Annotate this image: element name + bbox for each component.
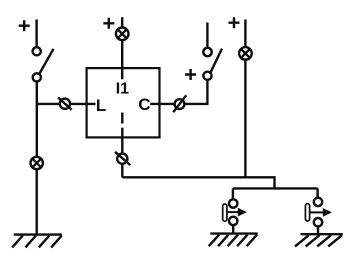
wire (drop to indicator P1): [232, 188, 234, 199]
switch S2 fixed contact circle: [203, 48, 211, 56]
lamp E1 (left pilot lamp): [31, 157, 43, 169]
wire (connector X3 down to node B rail): [121, 164, 123, 178]
connector X1 (circle with slash on L line): [58, 98, 72, 110]
svg-text:I1: I1: [116, 81, 129, 98]
wire (C line up to switch S2): [206, 80, 208, 105]
flasher unit I1 box: [87, 68, 160, 137]
node B (horizontal rail joining flasher output and lamp E3): [122, 176, 274, 178]
wire (stub above lamp E2): [121, 17, 123, 27]
connector X2 (circle with slash on C line): [173, 95, 186, 112]
power + (flasher unit feed): [103, 18, 114, 29]
wire (dashed internal link below I1): [121, 113, 123, 124]
node A (junction of left column and L line): [37, 103, 96, 105]
switch S1 moving contact circle: [33, 73, 41, 81]
power + (switch S2 feed): [185, 69, 196, 80]
ground (below P1): [209, 234, 258, 247]
svg-text:L: L: [96, 96, 106, 115]
wire (C terminal line out of box): [150, 103, 207, 105]
wire (left feed stub down to switch S1): [35, 19, 37, 47]
switch S1 blade: [40, 49, 54, 73]
wire (rail drop at right end): [273, 176, 275, 188]
wire (left column from S1 down to lamp E1): [36, 82, 38, 157]
power + (left battery feed): [19, 20, 30, 31]
wire (indicator P1 to ground): [232, 225, 234, 234]
power + (right lamp feed): [229, 17, 240, 28]
lamp E2 (top pilot lamp): [116, 28, 129, 41]
wire (stub above lamp E3): [244, 20, 246, 48]
ground (left): [12, 235, 62, 248]
svg-text:C: C: [138, 95, 150, 114]
lamp E3 (right pilot lamp): [239, 47, 252, 60]
indicator P1 (left directional lamp unit): [223, 199, 247, 225]
switch S2 moving contact circle: [203, 72, 211, 80]
ground (below P2): [295, 234, 343, 246]
wire (lamp E2 into flasher unit I1): [121, 40, 123, 79]
switch S1 fixed contact circle: [33, 47, 41, 55]
wire (internal link through box bottom to connector X3): [121, 128, 123, 154]
wire (lower distribution rail to both indicators): [233, 187, 318, 189]
wire (indicator P2 to ground): [317, 226, 319, 234]
connector X3 (circle with slash below flasher): [115, 152, 130, 165]
wire (lamp E3 down to node B): [244, 60, 246, 178]
wire (lamp E1 to ground): [36, 169, 38, 234]
switch S2 blade: [210, 49, 222, 73]
wire (drop to indicator P2): [316, 188, 318, 197]
wire (stub above switch S2): [206, 23, 208, 48]
indicator P2 (right directional lamp unit): [305, 198, 332, 227]
